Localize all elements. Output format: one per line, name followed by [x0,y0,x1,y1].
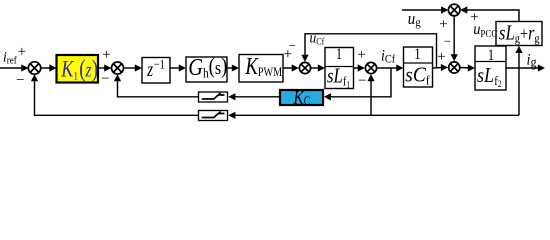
svg-text:−: − [444,33,451,48]
svg-text:+: + [102,47,110,63]
svg-text:+: + [18,44,26,60]
svg-text:1: 1 [336,46,342,64]
svg-text:sLg+rg: sLg+rg [499,22,540,46]
svg-text:z: z [146,58,153,81]
svg-text:−: − [358,73,366,89]
svg-text:K1(z): K1(z) [60,55,98,82]
svg-text:1: 1 [488,47,494,65]
svg-text:−1: −1 [154,58,165,72]
svg-text:+: + [357,47,365,63]
svg-text:−: − [289,38,296,53]
svg-text:1: 1 [414,46,420,64]
svg-text:−: − [101,71,109,87]
svg-text:+: + [439,17,447,33]
svg-text:+: + [437,49,445,65]
svg-text:−: − [16,73,24,89]
